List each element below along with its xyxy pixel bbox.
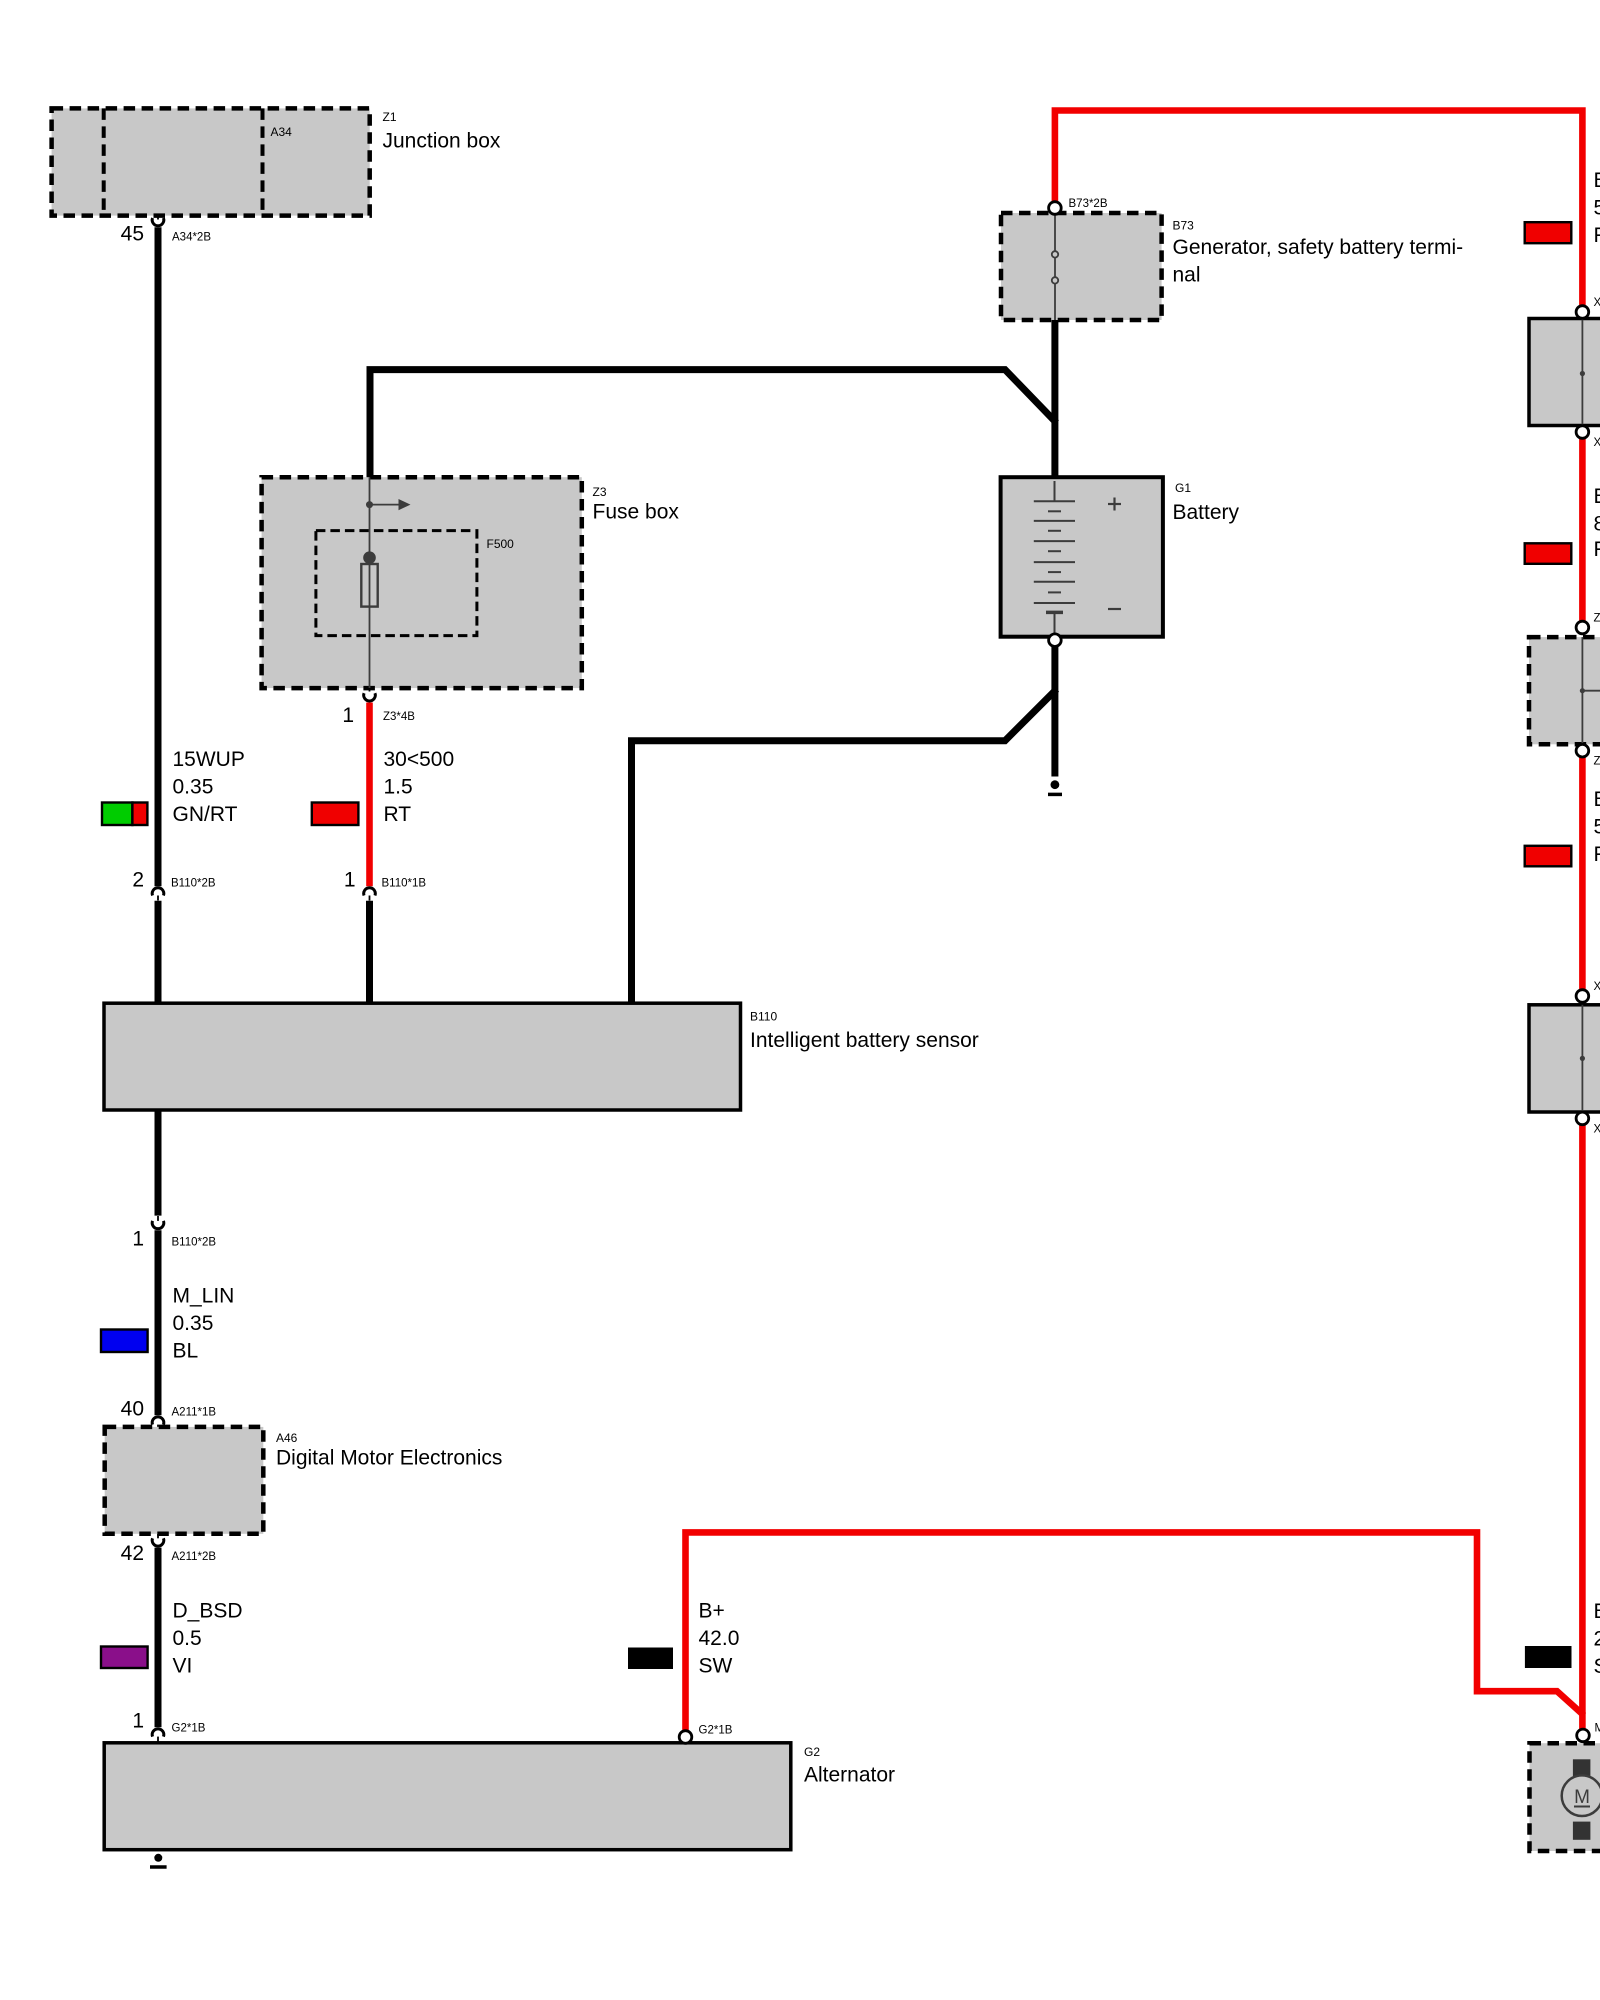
svg-text:0.35: 0.35 [173, 1312, 214, 1335]
wire connector to A46 pin40 [155, 1230, 162, 1415]
svg-text:BL: BL [173, 1340, 199, 1363]
svg-text:Z1: Z1 [1594, 613, 1600, 625]
svg-text:B110: B110 [750, 1010, 777, 1024]
wire red right column segment 4 [1579, 1125, 1586, 1730]
svg-text:Generator, safety battery term: Generator, safety battery termi- [1173, 236, 1464, 259]
wire A46 pin42 to G2 pin1 [155, 1548, 162, 1728]
svg-text:nal: nal [1173, 264, 1201, 287]
svg-text:Z1: Z1 [1594, 756, 1600, 768]
svg-text:B73: B73 [1173, 219, 1195, 233]
alternator G2 [104, 1743, 895, 1850]
svg-text:F500: F500 [487, 537, 515, 551]
svg-text:X1: X1 [1594, 437, 1600, 449]
motor brushes [1573, 1759, 1591, 1778]
connector 1 Z3*4B [342, 688, 415, 727]
svg-text:Fuse box: Fuse box [593, 501, 680, 524]
svg-text:Junction box: Junction box [383, 130, 501, 153]
svg-text:1: 1 [132, 1710, 144, 1733]
wire B110 pin1 black segment [366, 901, 373, 1006]
fuse box Z3 [262, 477, 680, 688]
svg-text:G2: G2 [804, 1745, 820, 1759]
right wire labels set 2 [1594, 485, 1600, 561]
svg-text:M: M [1574, 1787, 1590, 1808]
svg-text:1: 1 [132, 1228, 144, 1251]
svg-text:D_BSD: D_BSD [173, 1600, 243, 1623]
svg-text:X1: X1 [1594, 297, 1600, 309]
connector 2 B110*2B [132, 869, 216, 901]
svg-text:Alternator: Alternator [804, 1764, 895, 1787]
fuse holder F500 [316, 531, 477, 636]
right wire labels set 4 [1594, 1600, 1600, 1678]
svg-text:50.0: 50.0 [1594, 197, 1600, 220]
color swatch right RT 1 [1525, 222, 1572, 243]
wire battery minus branch to B110 [632, 689, 1057, 1006]
svg-text:G1: G1 [1175, 481, 1191, 495]
wire label M_LIN 0.35 BL [173, 1285, 235, 1363]
battery G1 [1001, 477, 1240, 637]
wire A34 pin45 to B110 pin2 [155, 227, 162, 886]
node with arrow [366, 501, 373, 508]
svg-text:1.5: 1.5 [384, 776, 413, 799]
svg-text:2: 2 [132, 869, 144, 892]
connector circle battery minus [1049, 634, 1062, 647]
color swatch RT [312, 803, 359, 826]
svg-text:1: 1 [342, 704, 354, 727]
svg-text:B+: B+ [1594, 169, 1600, 192]
connector circle X bottom of right box1 [1576, 426, 1589, 439]
svg-text:A34: A34 [271, 125, 293, 139]
wire battery minus to ground [1051, 647, 1058, 777]
svg-text:42.0: 42.0 [699, 1627, 740, 1650]
connector 1 B110*2B lower [132, 1216, 216, 1251]
color swatch right SW [1525, 1646, 1572, 1668]
connector 1 G2*1B left [132, 1710, 205, 1743]
right column: fusible link box 1 [1529, 319, 1600, 426]
svg-text:A211*2B: A211*2B [172, 1551, 217, 1563]
svg-text:SW: SW [699, 1655, 733, 1678]
connector circle Z bottom of right dashed box [1576, 744, 1589, 757]
wire label D_BSD 0.5 VI [173, 1600, 243, 1678]
wire B73 to battery plus [1051, 320, 1058, 478]
digital motor electronics A46 [105, 1427, 503, 1534]
svg-text:B+: B+ [699, 1600, 725, 1623]
connector circle G2*1B red [679, 1731, 692, 1744]
wire label 30<500 1.5 RT [384, 748, 455, 826]
wire fuse box feed from battery [370, 370, 1056, 478]
wires-red [370, 111, 1584, 1731]
svg-text:RT: RT [1594, 538, 1600, 561]
wire red fuse output [366, 703, 373, 887]
svg-text:50.0: 50.0 [1594, 816, 1600, 839]
connector 1 B110*1B [344, 869, 427, 901]
color swatch GN/RT [102, 803, 147, 826]
ground splice dot under alternator [154, 1854, 162, 1862]
starter motor box [1530, 1743, 1600, 1851]
svg-text:42: 42 [121, 1542, 144, 1565]
connector 42 A211*2B [121, 1534, 217, 1565]
svg-text:A34*2B: A34*2B [172, 231, 211, 243]
svg-text:B110*1B: B110*1B [382, 878, 427, 890]
color swatch right RT 2 [1525, 543, 1572, 564]
wire label B+ 42.0 SW [699, 1600, 740, 1678]
connector circle X top of right box2 [1576, 990, 1589, 1003]
fuse F500 element [363, 551, 376, 564]
svg-text:45: 45 [121, 222, 144, 245]
svg-text:Battery: Battery [1173, 501, 1240, 524]
connector circle Z top of right dashed box [1576, 621, 1589, 634]
svg-text:A46: A46 [276, 1431, 298, 1445]
wire red right column segment 2 [1579, 438, 1586, 621]
svg-text:G2*1B: G2*1B [699, 1725, 733, 1737]
color swatch BL [101, 1330, 148, 1353]
svg-text:B+: B+ [1594, 1600, 1600, 1623]
connector 40 A211*1B [121, 1398, 217, 1427]
color swatch right RT 3 [1525, 846, 1572, 867]
ground bar under battery [1048, 793, 1062, 797]
svg-text:X1: X1 [1594, 1124, 1600, 1136]
svg-text:G2*1B: G2*1B [172, 1723, 206, 1735]
svg-text:15WUP: 15WUP [173, 748, 245, 771]
svg-text:RT: RT [1594, 224, 1600, 247]
right wire labels set 1 [1594, 169, 1600, 247]
wire red B+ from alternator [686, 1532, 1584, 1730]
motor M circle [1562, 1775, 1600, 1816]
svg-text:RT: RT [384, 803, 412, 826]
svg-text:A211*1B: A211*1B [172, 1407, 217, 1419]
svg-text:M1*1B: M1*1B [1595, 1723, 1600, 1735]
svg-text:B+: B+ [1594, 788, 1600, 811]
svg-text:0.35: 0.35 [173, 776, 214, 799]
right column: dashed box Z [1529, 637, 1600, 744]
svg-text:Intelligent battery sensor: Intelligent battery sensor [750, 1029, 979, 1052]
svg-text:X1: X1 [1594, 981, 1600, 993]
generator safety battery terminal B73 [1001, 213, 1463, 320]
ground bar under alternator [150, 1865, 167, 1869]
svg-text:40: 40 [121, 1398, 144, 1421]
wire label 15WUP 0.35 GN/RT [173, 748, 245, 826]
svg-text:B73*2B: B73*2B [1069, 198, 1108, 210]
svg-text:RT: RT [1594, 843, 1600, 866]
connector circle X top of right box1 [1576, 306, 1589, 319]
svg-text:Digital Motor Electronics: Digital Motor Electronics [276, 1447, 502, 1470]
svg-text:25.0: 25.0 [1594, 1628, 1600, 1651]
svg-text:80.0: 80.0 [1594, 513, 1600, 536]
internal wire [369, 478, 371, 689]
wire red right column segment 3 [1579, 757, 1586, 990]
svg-text:M_LIN: M_LIN [173, 1285, 235, 1308]
svg-text:SW: SW [1594, 1655, 1600, 1678]
connector circle X bottom of right box2 [1576, 1112, 1589, 1125]
svg-text:1: 1 [344, 869, 356, 892]
connector circle M1*1B [1577, 1729, 1590, 1742]
svg-text:GN/RT: GN/RT [173, 803, 238, 826]
svg-text:Z1: Z1 [383, 110, 397, 124]
ground splice dot under battery [1051, 780, 1060, 789]
wires-black [158, 227, 1057, 1727]
intelligent battery sensor B110 [104, 1003, 979, 1110]
wire B110 bottom to connector [155, 1110, 162, 1216]
right column: solid box 2 [1529, 1005, 1600, 1112]
connector pin 45 A34*2B [121, 216, 212, 246]
svg-text:30<500: 30<500 [384, 748, 455, 771]
right wire labels set 3 [1594, 788, 1600, 866]
wire red B73*2B to right column [1055, 111, 1583, 306]
svg-text:B110*2B: B110*2B [172, 1237, 217, 1249]
svg-text:Z3: Z3 [593, 485, 607, 499]
color swatch SW [628, 1648, 673, 1670]
connector circle B73*2B [1049, 202, 1062, 215]
svg-text:VI: VI [173, 1655, 193, 1678]
svg-text:0.5: 0.5 [173, 1627, 202, 1650]
wire pin2 to B110 box [155, 901, 162, 1006]
svg-text:B110*2B: B110*2B [171, 878, 216, 890]
color swatch VI [101, 1647, 148, 1669]
junction box Z1 A34 [52, 108, 501, 215]
svg-text:B+: B+ [1594, 485, 1600, 508]
svg-text:Z3*4B: Z3*4B [383, 711, 415, 723]
